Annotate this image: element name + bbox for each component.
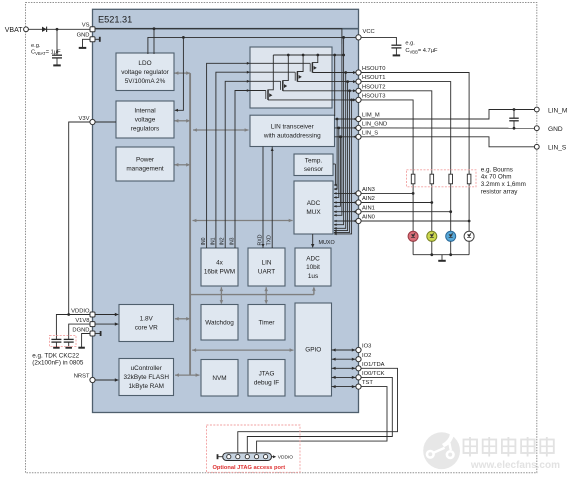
wire V1V8 to 1.8V VR [93, 323, 119, 325]
wire TXD [271, 147, 273, 249]
wire PWM IN2 to gate Q3 [225, 81, 280, 248]
svg-text:1kByte RAM: 1kByte RAM [128, 383, 164, 390]
svg-text:AIN2: AIN2 [362, 196, 375, 202]
wire VCC to internal voltage regulators [175, 37, 184, 110]
svg-text:MUX: MUX [306, 209, 321, 216]
block JTAG debug IF [248, 360, 285, 397]
wire rail to LIN transceiver top [334, 55, 336, 116]
svg-text:LIN transceiver: LIN transceiver [271, 124, 315, 131]
svg-text:1us: 1us [308, 273, 318, 280]
pin AIN2 [356, 200, 361, 205]
pin LIN_GND [356, 125, 361, 130]
wire GPIO IO1/TDA [332, 367, 359, 369]
svg-text:LIN_M: LIN_M [548, 107, 567, 114]
node VS-LDO [153, 27, 156, 30]
pin AIN3 [356, 191, 361, 196]
svg-text:resistor array: resistor array [481, 188, 519, 195]
lower peripheral bus [190, 294, 314, 296]
svg-text:GND: GND [548, 126, 563, 133]
resistor R4 [467, 174, 471, 231]
terminal LIN_M [534, 107, 539, 112]
wire VCC sense to ADC MUX [334, 55, 344, 225]
wire LED red cathode [412, 241, 414, 254]
pin V3V [90, 119, 95, 124]
block temp sensor [294, 154, 333, 176]
block internal voltage regulators [116, 101, 174, 138]
wire IO1/TDA to JTAG port [238, 368, 398, 453]
svg-text:IN1: IN1 [210, 237, 216, 245]
JTAG connector J1 [218, 453, 277, 461]
gray spine bus [189, 73, 191, 375]
svg-text:4x 70 Ohm: 4x 70 Ohm [481, 174, 512, 181]
pin NRST [90, 377, 95, 382]
wire GPIO IO3 [332, 349, 359, 351]
svg-text:ADC: ADC [306, 255, 320, 262]
svg-text:VDDIO: VDDIO [278, 455, 293, 461]
transistor Q2 (high-side driver) [295, 54, 358, 82]
svg-text:1.8V: 1.8V [140, 316, 154, 323]
wire TEMP sense to ADC MUX [334, 164, 335, 185]
svg-text:IN3: IN3 [230, 237, 236, 245]
svg-text:5V/100mA 2%: 5V/100mA 2% [125, 78, 166, 85]
svg-text:sensor: sensor [304, 166, 324, 173]
svg-text:Temp.: Temp. [305, 158, 323, 165]
svg-text:www.elecfans.com: www.elecfans.com [470, 460, 560, 471]
svg-text:LIN: LIN [262, 260, 272, 267]
wire HSOUT0 external to resistor column [361, 73, 469, 175]
wire MUXO ADC MUX to ADC [312, 234, 314, 247]
capacitor LIN filter [513, 110, 515, 119]
pin LIM_M [356, 116, 361, 121]
pin VDDIO [90, 312, 95, 317]
wire V3V external [69, 122, 93, 315]
bus arrow internal voltage regulators [175, 120, 191, 122]
svg-text:HSOUT0: HSOUT0 [362, 66, 386, 72]
wire VS to LDO top [153, 29, 155, 54]
wire LED white cathode [468, 241, 470, 254]
transistor Q3 (high-side driver) [281, 54, 359, 91]
wire LIN_M sense to ADC MUX [334, 119, 337, 189]
bus arrow ADC MUX [193, 220, 293, 222]
svg-text:CVBAT= 1µF: CVBAT= 1µF [31, 50, 61, 57]
wire AIN2 to ADC MUX [334, 202, 359, 204]
svg-text:HSOUT2: HSOUT2 [362, 84, 386, 90]
pin LIN_S [356, 134, 361, 139]
svg-text:UART: UART [258, 269, 275, 276]
block 1.8V core VR [119, 305, 174, 342]
block ADC 10bit 1us [295, 248, 331, 286]
wire AIN3 tap [361, 192, 413, 194]
block LIN UART [248, 248, 285, 286]
bus arrow 1.8V core VR [175, 318, 190, 320]
block power management [116, 147, 174, 181]
svg-text:CVBB= 4.7µF: CVBB= 4.7µF [405, 48, 438, 55]
pin VCC [356, 35, 361, 40]
wire GND internal stub [93, 38, 100, 40]
drain rail [273, 54, 343, 56]
svg-text:(2x100nF) in 0805: (2x100nF) in 0805 [32, 360, 84, 367]
wire HSOUT1 sense to ADC MUX [334, 82, 348, 231]
wire GPIO IO2 [332, 358, 359, 360]
pin AIN1 [356, 209, 361, 214]
wire LIN_GND external [361, 127, 534, 129]
wire GND external [83, 39, 93, 47]
bus arrow PWM-bottom [220, 287, 222, 294]
svg-text:Timer: Timer [258, 319, 275, 326]
bus arrow UART-bottom [265, 287, 267, 294]
svg-text:IO2: IO2 [362, 353, 371, 359]
wire LIN_S pin to LIN transceiver [335, 136, 359, 138]
bus arrow timer-top [265, 295, 267, 304]
wire LIN_M external [361, 110, 534, 120]
bus arrow power management [175, 164, 191, 166]
svg-text:e.g.: e.g. [405, 40, 415, 46]
capacitor C_VBAT [56, 29, 58, 55]
wire HSOUT0 sense to ADC MUX [334, 73, 346, 229]
capacitor C1 TDK [51, 338, 61, 340]
svg-text:with autoaddressing: with autoaddressing [263, 133, 321, 140]
block timer [248, 305, 285, 341]
svg-text:GPIO: GPIO [305, 347, 321, 354]
wire AIN0 to ADC MUX [334, 220, 359, 222]
svg-text:debug IF: debug IF [254, 379, 279, 386]
wire GPIO IO0/TCK [332, 376, 359, 378]
pin IO2 [356, 357, 361, 362]
svg-text:management: management [126, 166, 164, 173]
svg-text:AIN0: AIN0 [362, 215, 375, 221]
svg-text:LDO: LDO [138, 60, 151, 67]
node VBAT cap junction [56, 28, 59, 31]
svg-text:AIN1: AIN1 [362, 205, 375, 211]
wire NRST to uController [93, 379, 119, 381]
wire VBAT to VS [28, 28, 92, 30]
block high-side driver array (4x MOSFET) [250, 47, 332, 108]
pin VS [90, 27, 95, 32]
pin IO3 [356, 347, 361, 352]
pin HSOUT0 [356, 70, 361, 75]
wire LDO output to VCC [148, 37, 359, 54]
svg-text:voltage regulator: voltage regulator [121, 69, 169, 76]
wire HSOUT1 external to resistor column [361, 82, 451, 175]
red dashed box TDK caps [50, 335, 77, 346]
svg-text:E521.31: E521.31 [98, 14, 132, 24]
svg-text:10bit: 10bit [306, 264, 320, 271]
wire TST to JTAG port [257, 387, 387, 454]
wire VCC external [361, 37, 396, 45]
svg-text:VBAT: VBAT [5, 27, 23, 34]
node LIN_M cap [513, 108, 516, 111]
pin AIN0 [356, 218, 361, 223]
svg-text:TST: TST [362, 380, 373, 386]
block GPIO [295, 303, 332, 396]
svg-text:V1V8: V1V8 [75, 318, 89, 324]
svg-text:AIN3: AIN3 [362, 187, 375, 193]
svg-text:3.2mm x 1,6mm: 3.2mm x 1,6mm [481, 181, 526, 188]
svg-text:uController: uController [131, 365, 163, 372]
wire HSOUT2 external to resistor column [361, 91, 432, 175]
wire PWM IN0 to gate Q1 [207, 63, 311, 248]
wire AIN0 tap [361, 220, 469, 222]
block U-LDO voltage regulator [116, 53, 174, 91]
svg-text:HSOUT1: HSOUT1 [362, 75, 386, 81]
block LIN transceiver with autoaddressing [250, 115, 335, 146]
svg-text:LIM_M: LIM_M [362, 113, 380, 119]
svg-text:LIN_S: LIN_S [362, 130, 378, 136]
svg-text:core VR: core VR [135, 325, 158, 332]
block 4x 16bit PWM [201, 248, 238, 286]
wire AIN2 tap [361, 202, 432, 204]
wire LED blue cathode [450, 241, 452, 254]
pin HSOUT2 [356, 88, 361, 93]
transistor Q1 (high-side driver) [310, 54, 358, 73]
wire LIN_GND sense to ADC MUX [334, 128, 339, 197]
wire VDDIO external to cap [56, 315, 92, 340]
temp sensor to ADC MUX wire [333, 163, 335, 165]
bus arrow watchdog-top [220, 295, 222, 304]
pin DGND [90, 331, 95, 336]
svg-text:IO0/TCK: IO0/TCK [362, 371, 385, 377]
svg-text:VCC: VCC [363, 29, 375, 35]
bus arrow uController-NVM [175, 374, 200, 376]
wire RXD [262, 147, 264, 249]
block ADC MUX [294, 181, 333, 234]
svg-text:VS: VS [82, 23, 90, 29]
svg-text:IN2: IN2 [220, 237, 226, 245]
capacitor C2 TDK [64, 338, 74, 340]
terminal GND [534, 126, 539, 131]
red dashed box optional JTAG access port [207, 425, 301, 472]
wire GPIO TST [332, 386, 359, 388]
svg-text:DGND: DGND [72, 327, 89, 333]
wire HSOUT3 sense to ADC MUX [334, 100, 352, 234]
terminal LIN_S [534, 144, 539, 149]
wire AIN1 tap [361, 211, 451, 213]
node V3V-VDDIO [67, 313, 70, 316]
svg-text:Power: Power [136, 157, 155, 164]
wire IO0/TCK to JTAG port [247, 377, 392, 453]
svg-text:LIN_S: LIN_S [548, 145, 567, 152]
block uController [119, 359, 174, 396]
node VCC-bundle [342, 36, 345, 39]
svg-text:voltage: voltage [135, 117, 156, 124]
svg-text:NRST: NRST [74, 374, 90, 380]
red dashed box resistor array [407, 170, 477, 187]
svg-text:e.g. Bourns: e.g. Bourns [481, 166, 513, 173]
wire DGND external [82, 334, 93, 348]
bus arrow LIN transceiver [193, 129, 249, 131]
svg-text:IN0: IN0 [201, 237, 207, 245]
wire VDDIO to 1.8V VR [93, 314, 119, 316]
svg-text:RXD: RXD [258, 234, 264, 245]
wire LIN_S sense to ADC MUX [334, 137, 340, 207]
wire LIN_S external [361, 137, 534, 147]
capacitor C_VBB [391, 44, 401, 46]
wire V3V to IVR [93, 121, 117, 123]
svg-text:4x: 4x [216, 260, 224, 267]
svg-text:LIN_GND: LIN_GND [362, 122, 387, 128]
svg-text:Internal: Internal [134, 108, 155, 115]
pin GND [90, 37, 95, 42]
wire VS rail / title separator feed [93, 29, 342, 44]
pin IO1/TDA [356, 366, 361, 371]
pin HSOUT3 [356, 97, 361, 102]
node GND cap [513, 127, 516, 130]
svg-text:NVM: NVM [212, 375, 226, 382]
wire HSOUT2 sense to ADC MUX [334, 91, 350, 233]
wire HSOUT3 external to resistor column [361, 100, 413, 174]
wire LIN_GND pin to LIN transceiver [335, 127, 359, 129]
LED green [427, 231, 437, 241]
wire AIN3 to ADC MUX [334, 192, 359, 194]
transistor Q4 (high-side driver) [266, 55, 359, 100]
wire DGND internal stub [93, 333, 101, 335]
bus arrow LDO [175, 72, 191, 74]
resistor R1 [411, 174, 415, 231]
wire VCC-rail vertical [343, 37, 345, 55]
bus arrow GPIO [192, 349, 293, 351]
svg-text:JTAG: JTAG [259, 370, 275, 377]
svg-text:VDDIO: VDDIO [71, 308, 90, 314]
bus arrow into ADC bottom [313, 288, 315, 295]
watermark CJK text 电子发烧友 (approximated strokes) [464, 437, 554, 457]
ground LED bus [441, 255, 443, 261]
svg-text:e.g.: e.g. [31, 43, 41, 49]
svg-text:e.g. TDK CKC22: e.g. TDK CKC22 [32, 352, 79, 359]
node rail-LIN supply [333, 54, 336, 57]
wire LED green cathode [431, 241, 433, 254]
svg-text:TXD: TXD [267, 235, 273, 246]
pin V1V8 [90, 322, 95, 327]
svg-text:GND: GND [77, 33, 90, 39]
resistor R2 [430, 174, 434, 231]
LED blue [446, 231, 456, 241]
wire LIN_M pin to LIN transceiver [335, 118, 359, 120]
LED red [408, 231, 418, 241]
pin TST [356, 384, 361, 389]
svg-text:MUXO: MUXO [319, 240, 335, 246]
block watchdog [201, 305, 238, 341]
block NVM [201, 360, 238, 397]
wire PWM IN3 to gate Q4 [235, 91, 266, 249]
LED white [464, 231, 474, 241]
svg-text:Optional JTAG access port: Optional JTAG access port [213, 465, 286, 471]
pin HSOUT1 [356, 79, 361, 84]
svg-text:32kByte FLASH: 32kByte FLASH [124, 374, 170, 381]
diode D1 [42, 27, 47, 32]
terminal VBAT [24, 27, 29, 32]
svg-text:HSOUT3: HSOUT3 [362, 94, 386, 100]
svg-text:regulators: regulators [131, 126, 159, 133]
resistor R3 [449, 174, 453, 231]
svg-text:IO1/TDA: IO1/TDA [362, 362, 385, 368]
wire PWM IN1 to gate Q2 [216, 72, 295, 248]
svg-text:16bit PWM: 16bit PWM [204, 269, 235, 276]
svg-text:IO3: IO3 [362, 344, 371, 350]
wire AIN1 to ADC MUX [334, 211, 359, 213]
watermark logo circle [423, 426, 460, 469]
wire V1V8 external to cap [69, 324, 93, 339]
pin IO0/TCK [356, 375, 361, 380]
svg-text:ADC: ADC [307, 200, 321, 207]
chip E521.31 body [93, 9, 359, 412]
svg-text:V3V: V3V [79, 116, 90, 122]
LED common return bus [413, 254, 469, 256]
node VCC-IVR branch [182, 36, 185, 39]
svg-text:Watchdog: Watchdog [205, 319, 234, 326]
wire VS sense to ADC MUX [334, 44, 342, 215]
